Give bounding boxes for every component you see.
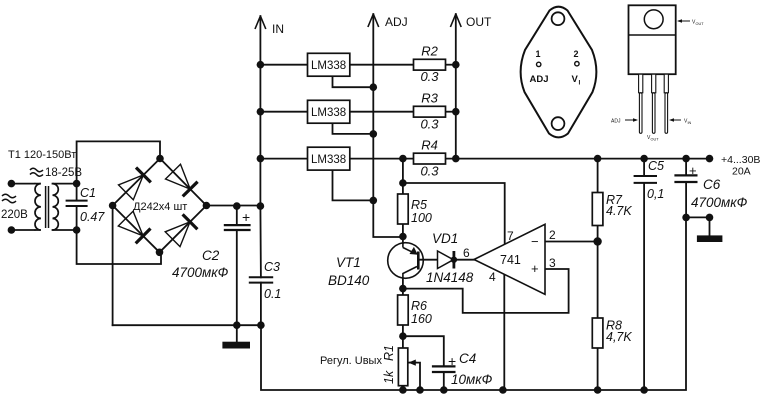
node bridge AC bottom xyxy=(156,249,164,257)
resistor R5 xyxy=(398,194,432,225)
node R4 left junction xyxy=(399,155,407,163)
wire op-amp pin4 down to common rail xyxy=(503,274,505,390)
bridge side left-bottom xyxy=(113,206,160,253)
wire R5 bottom to VT1 collector node xyxy=(402,224,404,243)
transformer T1 secondary winding xyxy=(53,184,59,230)
node C1 bottom junction xyxy=(73,226,81,234)
terminal output plus xyxy=(706,155,714,163)
wire ADJ bus vertical and turn to VT1 node xyxy=(373,14,403,237)
wire R3 to OUT bus xyxy=(446,111,456,113)
svg-text:0.1: 0.1 xyxy=(264,287,281,301)
node OUT bus junction xyxy=(452,61,460,69)
svg-text:OUT: OUT xyxy=(696,22,705,26)
svg-text:4700мкФ: 4700мкФ xyxy=(172,265,229,280)
wire LM338 U1 ADJ pin to ADJ bus xyxy=(333,76,374,87)
svg-text:С2: С2 xyxy=(202,248,220,263)
svg-text:3: 3 xyxy=(549,256,556,270)
terminal primary bottom xyxy=(8,226,16,234)
node ADJ bus junction xyxy=(370,130,378,138)
node IN bus junction xyxy=(257,155,265,163)
svg-text:IN: IN xyxy=(688,121,692,125)
resistor R7 xyxy=(592,193,632,226)
node common rail junction xyxy=(499,386,507,394)
wire op-amp pin2 to R7-R8 divider node xyxy=(545,241,598,243)
node VT1 collector junction xyxy=(399,233,407,241)
wire primary bottom lead xyxy=(11,229,34,231)
svg-text:LM338: LM338 xyxy=(311,107,346,119)
wire C1 bottom node down and to bridge AC bottom xyxy=(77,230,161,264)
capacitor C3 xyxy=(249,277,273,282)
diode bridge D4 bottom-right xyxy=(165,222,190,247)
svg-text:VD1: VD1 xyxy=(432,231,458,246)
wire C5 top lead xyxy=(643,159,645,176)
svg-text:Регул. Uвых: Регул. Uвых xyxy=(320,355,382,367)
node R6 bottom junction xyxy=(399,332,407,340)
wire op-amp pin3 to VT1 emitter node xyxy=(403,269,569,313)
svg-text:160: 160 xyxy=(411,312,432,326)
svg-text:20А: 20А xyxy=(732,166,751,178)
node ADJ bus junction xyxy=(370,197,378,205)
op-amp U4 741 xyxy=(474,224,545,294)
wire R2 to OUT bus xyxy=(446,64,456,66)
svg-text:4700мкФ: 4700мкФ xyxy=(691,195,748,210)
svg-text:1k: 1k xyxy=(382,370,396,384)
svg-text:10мкФ: 10мкФ xyxy=(451,372,493,387)
capacitor C1 xyxy=(66,201,88,206)
capacitor C4 xyxy=(432,366,456,372)
svg-text:+: + xyxy=(689,163,697,178)
wire R7 bottom to divider node xyxy=(597,226,599,242)
potentiometer R1 xyxy=(382,345,417,386)
node common rail junction xyxy=(640,386,648,394)
node IN bus bottom junction xyxy=(257,202,265,210)
wire LM338 U1 output to R2 xyxy=(350,64,414,66)
package TO-220 VIN pin arrow xyxy=(671,119,681,121)
wire C4 bottom to ground rail xyxy=(443,372,445,390)
package TO-3 outline xyxy=(521,7,597,138)
svg-text:LM338: LM338 xyxy=(311,60,346,72)
wire R1 wiper to ground rail xyxy=(409,363,420,390)
svg-text:741: 741 xyxy=(500,253,521,267)
node common rail junction xyxy=(440,386,448,394)
node bridge plus right xyxy=(203,202,211,210)
wire bridge plus vertex to IN bus xyxy=(206,205,260,207)
node bridge AC top xyxy=(156,155,164,163)
wire C1 leads xyxy=(76,184,78,230)
wire LM338 U3 input from IN bus xyxy=(260,158,307,160)
wire VT1 base to VD1 anode xyxy=(420,259,438,261)
regulator U3 LM338 xyxy=(308,147,350,170)
svg-text:С3: С3 xyxy=(264,260,280,274)
package TO-220 ADJ pin arrow xyxy=(625,119,636,121)
package TO-220 body xyxy=(629,5,676,74)
package TO-220 tab hole xyxy=(644,10,663,29)
wire C1 top node up and over to bridge AC top xyxy=(77,141,160,183)
node bridge minus left xyxy=(109,202,117,210)
wire IN bus vertical xyxy=(259,16,261,206)
wire LM338 U1 input from IN bus xyxy=(260,64,307,66)
node VT1 emitter junction xyxy=(399,285,407,293)
wire R1 bottom to ground rail xyxy=(402,386,404,390)
wire bridge minus vertex down to ground line xyxy=(112,206,114,326)
wire LM338 U2 ADJ pin to ADJ bus xyxy=(333,123,374,134)
wire R4 left node down through R5 branch xyxy=(402,159,404,194)
node C2 top junction xyxy=(233,202,241,210)
node IN bus junction xyxy=(257,61,265,69)
svg-text:0.3: 0.3 xyxy=(420,69,439,84)
label 220V xyxy=(2,194,16,203)
svg-text:0.47: 0.47 xyxy=(80,210,105,224)
svg-text:220В: 220В xyxy=(1,209,28,221)
resistor R3 xyxy=(414,91,446,132)
node C2 ground junction xyxy=(233,321,241,329)
package TO-220 pins xyxy=(639,74,669,133)
capacitor C5 xyxy=(634,176,657,183)
transformer T1 core xyxy=(46,186,49,228)
wire secondary top lead to C1 node xyxy=(53,183,77,185)
svg-text:+4...30В: +4...30В xyxy=(721,154,760,166)
svg-text:Д242х4 шт: Д242х4 шт xyxy=(133,201,187,213)
wire C5 bottom lead to common rail xyxy=(643,183,645,390)
svg-text:0,1: 0,1 xyxy=(647,187,664,201)
svg-text:С4: С4 xyxy=(459,351,476,366)
svg-text:R3: R3 xyxy=(421,91,438,106)
wire C6 minus node to output minus terminal xyxy=(686,216,709,218)
transistor VT1 BD140 xyxy=(388,243,424,279)
regulator U2 LM338 xyxy=(308,100,350,123)
package TO-3 pin 2 VI xyxy=(575,62,579,66)
svg-text:1N4148: 1N4148 xyxy=(426,270,474,285)
svg-text:R5: R5 xyxy=(411,198,427,212)
package TO-3 pin 1 ADJ xyxy=(537,62,541,66)
svg-text:0.3: 0.3 xyxy=(420,164,439,179)
wire LM338 U3 ADJ pin to ADJ bus xyxy=(333,170,374,200)
wire LM338 U2 input from IN bus xyxy=(260,111,307,113)
capacitor C2 xyxy=(224,225,251,230)
node VD1 cathode junction xyxy=(451,257,457,263)
node rail C5 junction xyxy=(640,155,648,163)
node common rail junction xyxy=(594,386,602,394)
diode bridge D2 top-right xyxy=(166,164,191,189)
node C6 minus junction xyxy=(682,214,690,222)
svg-text:OUT: OUT xyxy=(651,138,660,142)
node OUT bus junction xyxy=(452,108,460,116)
node common rail junction xyxy=(416,386,424,394)
node OUT arrow xyxy=(450,14,461,27)
svg-text:+: + xyxy=(531,261,539,276)
svg-text:C1: C1 xyxy=(80,186,96,200)
package TO-220 tab label arrow xyxy=(678,20,690,22)
package TO-3 mounting hole top xyxy=(552,12,565,25)
svg-text:100: 100 xyxy=(411,211,432,225)
wire C2 top lead xyxy=(236,206,238,225)
svg-text:ADJ: ADJ xyxy=(611,119,621,125)
wire R8 bottom to common rail xyxy=(597,348,599,390)
bridge side bottom-right xyxy=(160,206,207,253)
svg-text:R2: R2 xyxy=(421,44,438,59)
wire LM338 U2 output to R3 xyxy=(350,111,414,113)
svg-text:OUT: OUT xyxy=(466,15,492,29)
wire C6 bottom lead to minus node xyxy=(685,182,687,217)
svg-text:I: I xyxy=(579,80,581,87)
node op-amp supply branch junction xyxy=(399,179,407,187)
wire VD1 cathode to op-amp pin6 xyxy=(456,259,474,261)
node op-amp pin2 divider junction xyxy=(593,237,601,245)
node C1 top junction xyxy=(73,180,81,188)
wire secondary bottom lead to C1 node xyxy=(53,229,77,231)
svg-text:ADJ: ADJ xyxy=(530,74,549,85)
svg-text:2: 2 xyxy=(574,49,579,59)
wire divider node to R8 top xyxy=(597,242,599,319)
svg-text:IN: IN xyxy=(272,22,284,36)
svg-text:VT1: VT1 xyxy=(336,255,361,270)
node ADJ bus junction xyxy=(370,83,378,91)
wire ground line to C3 bottom xyxy=(113,324,261,326)
svg-text:1: 1 xyxy=(536,49,541,59)
svg-text:Т1 120-150Вт: Т1 120-150Вт xyxy=(8,149,76,161)
svg-text:4.7K: 4.7K xyxy=(606,204,632,218)
diode bridge D1 top-left xyxy=(119,175,144,200)
svg-text:18-25В: 18-25В xyxy=(45,167,82,179)
node common rail junction xyxy=(399,386,407,394)
capacitor C6 xyxy=(674,175,697,182)
wire output minus ground stub xyxy=(709,217,711,235)
wire C2 ground stub xyxy=(236,325,238,342)
svg-text:2: 2 xyxy=(549,228,556,242)
svg-text:BD140: BD140 xyxy=(328,273,370,288)
wire C3 bottom lead xyxy=(260,283,262,326)
node rail R7 junction xyxy=(594,155,602,163)
wire C2 bottom lead to ground node xyxy=(236,230,238,325)
svg-text:V: V xyxy=(572,74,579,85)
svg-text:+: + xyxy=(242,209,250,225)
terminal primary top xyxy=(8,180,16,188)
transformer T1 primary winding xyxy=(35,184,41,230)
svg-text:6: 6 xyxy=(463,246,470,260)
regulator U1 LM338 xyxy=(308,53,350,76)
svg-text:4: 4 xyxy=(489,270,496,284)
wire OUT bus vertical xyxy=(455,14,457,159)
wire primary top lead xyxy=(11,183,34,185)
resistor R8 xyxy=(592,318,632,348)
node IN arrow xyxy=(255,16,266,29)
svg-text:С6: С6 xyxy=(703,177,721,192)
wire C6 top lead xyxy=(685,159,687,176)
ground symbol near C2 xyxy=(222,342,250,349)
node IN bus junction xyxy=(257,108,265,116)
diode VD1 1N4148 xyxy=(438,251,454,269)
resistor R4 xyxy=(414,138,446,179)
wire C3 top lead from IN bus xyxy=(259,206,262,277)
svg-text:+: + xyxy=(448,353,456,369)
bridge side left-top xyxy=(113,159,160,206)
wire R7 top lead xyxy=(597,159,599,193)
label secondary voltage xyxy=(30,168,43,176)
node rail C6 junction xyxy=(682,155,690,163)
diode bridge D3 bottom-left xyxy=(118,211,143,236)
svg-text:R1: R1 xyxy=(382,345,396,361)
svg-text:С5: С5 xyxy=(648,159,664,173)
wire R6 bottom node to R1 top xyxy=(402,325,404,348)
svg-text:LM338: LM338 xyxy=(311,154,346,166)
wire common rail bottom xyxy=(261,217,686,390)
svg-text:4,7K: 4,7K xyxy=(606,330,632,344)
svg-text:R6: R6 xyxy=(411,299,427,313)
svg-text:R4: R4 xyxy=(421,138,438,153)
node C3 bottom junction xyxy=(257,321,265,329)
svg-text:7: 7 xyxy=(507,229,514,243)
resistor R2 xyxy=(414,44,446,84)
wire op-amp pin7 supply from R5 top node xyxy=(403,183,505,244)
node OUT bus junction xyxy=(452,155,460,163)
terminal output minus xyxy=(706,214,714,222)
wire VT1 emitter node down to R6 xyxy=(402,279,404,296)
svg-text:−: − xyxy=(531,234,539,249)
svg-text:ADJ: ADJ xyxy=(385,15,408,29)
svg-text:0.3: 0.3 xyxy=(420,117,439,132)
resistor R6 xyxy=(398,295,432,326)
bridge side top-right xyxy=(160,159,206,206)
wire output rail from R4 to output terminal xyxy=(446,158,710,160)
ground symbol near C6 xyxy=(697,235,723,242)
package TO-3 mounting hole bottom xyxy=(552,117,565,130)
wire R6 node to C4 top xyxy=(403,336,444,366)
wire LM338 U3 output to R4 xyxy=(350,158,414,160)
node ADJ arrow xyxy=(368,14,379,27)
